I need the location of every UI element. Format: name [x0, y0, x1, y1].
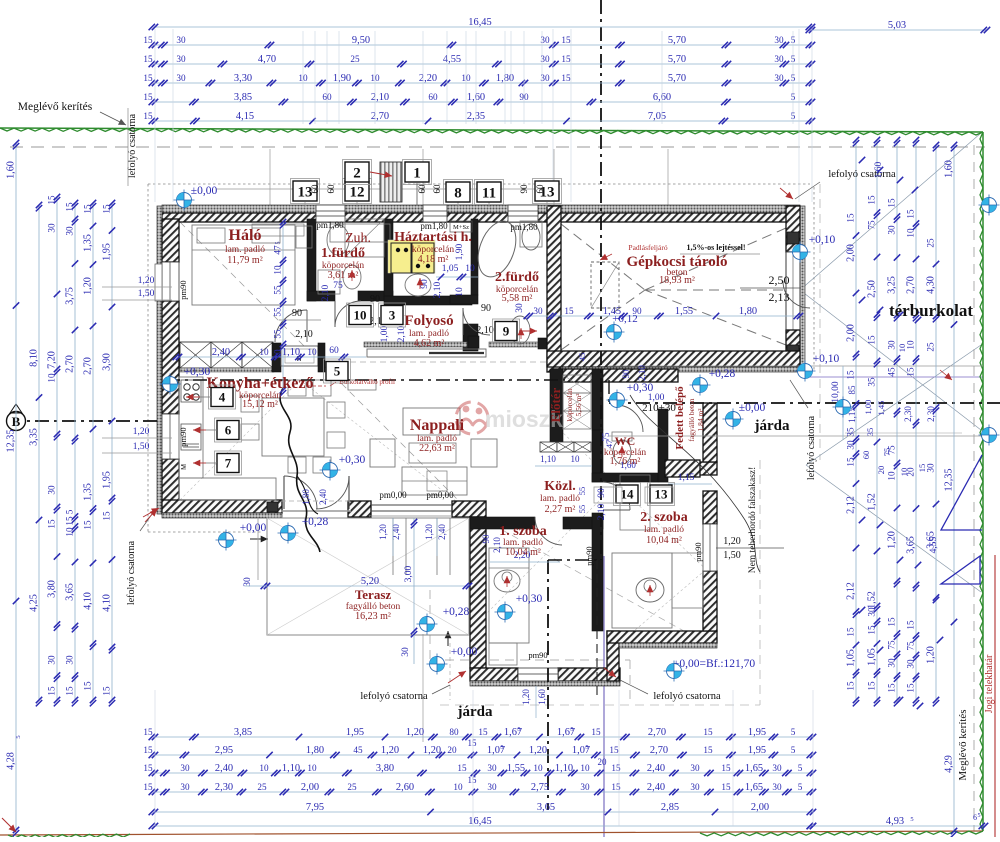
svg-text:30: 30 — [533, 306, 543, 316]
svg-text:15: 15 — [611, 782, 621, 792]
svg-text:9,50: 9,50 — [352, 35, 370, 46]
svg-text:10: 10 — [887, 471, 897, 481]
svg-text:4,30: 4,30 — [926, 276, 937, 294]
svg-text:18,93 m²: 18,93 m² — [659, 275, 695, 286]
svg-text:2,00: 2,00 — [846, 324, 857, 342]
svg-text:15: 15 — [65, 202, 75, 212]
svg-text:2,30: 2,30 — [215, 782, 233, 793]
svg-text:2,30: 2,30 — [903, 406, 913, 422]
svg-text:10: 10 — [906, 340, 916, 350]
svg-text:2: 2 — [353, 165, 361, 181]
svg-text:lefolyó csatorna: lefolyó csatorna — [806, 415, 817, 480]
svg-text:11,79 m²: 11,79 m² — [227, 255, 262, 266]
svg-text:1,95: 1,95 — [102, 243, 113, 261]
svg-text:15: 15 — [143, 54, 153, 64]
svg-text:Fedett belépő: Fedett belépő — [674, 386, 686, 450]
svg-text:15: 15 — [564, 306, 574, 316]
svg-text:5,70: 5,70 — [668, 35, 686, 46]
svg-text:6: 6 — [225, 423, 232, 438]
svg-text:+0,00: +0,00 — [451, 646, 478, 658]
svg-text:4,55: 4,55 — [443, 54, 461, 65]
svg-text:járda: járda — [457, 704, 493, 720]
svg-text:10: 10 — [259, 763, 269, 773]
svg-text:30: 30 — [774, 35, 784, 45]
svg-text:4,15: 4,15 — [236, 111, 254, 122]
svg-text:3,25: 3,25 — [887, 276, 898, 294]
svg-text:köporcelán: köporcelán — [565, 388, 574, 422]
svg-text:2,70: 2,70 — [83, 357, 94, 375]
svg-text:30: 30 — [774, 73, 784, 83]
svg-text:15: 15 — [143, 782, 153, 792]
svg-text:15: 15 — [468, 738, 478, 748]
svg-text:1,20: 1,20 — [424, 524, 434, 540]
svg-text:5: 5 — [798, 763, 803, 773]
svg-text:1,60: 1,60 — [874, 161, 884, 178]
svg-text:1,60: 1,60 — [6, 161, 17, 179]
svg-text:10: 10 — [453, 782, 463, 792]
svg-text:1,90: 1,90 — [333, 73, 351, 84]
svg-text:2,10: 2,10 — [295, 329, 313, 340]
svg-text:2,60: 2,60 — [396, 782, 414, 793]
svg-text:1,00: 1,00 — [380, 325, 390, 342]
svg-text:4,70: 4,70 — [258, 54, 276, 65]
svg-text:pm90: pm90 — [584, 546, 594, 565]
svg-text:11: 11 — [482, 185, 496, 201]
svg-text:5: 5 — [65, 509, 75, 514]
svg-text:Előtér: Előtér — [548, 387, 563, 422]
svg-text:12: 12 — [350, 184, 365, 200]
svg-text:pm1,80: pm1,80 — [510, 222, 538, 232]
svg-text:10: 10 — [354, 308, 367, 323]
svg-text:210+30: 210+30 — [642, 402, 676, 414]
svg-text:85: 85 — [847, 385, 857, 395]
svg-text:4,62 m²: 4,62 m² — [414, 338, 445, 349]
svg-text:lefolyó csatorna: lefolyó csatorna — [127, 113, 138, 178]
svg-text:1,52: 1,52 — [867, 493, 878, 511]
svg-text:15: 15 — [47, 195, 57, 205]
svg-text:Meglévő kerítés: Meglévő kerítés — [957, 709, 969, 780]
svg-text:2,40: 2,40 — [647, 782, 665, 793]
svg-text:15: 15 — [887, 198, 897, 208]
svg-text:45: 45 — [887, 367, 897, 377]
svg-text:15: 15 — [906, 620, 916, 630]
svg-text:15: 15 — [846, 681, 856, 691]
svg-text:7: 7 — [225, 456, 232, 471]
svg-text:15: 15 — [867, 681, 877, 691]
svg-text:1,10: 1,10 — [282, 347, 300, 358]
svg-text:35: 35 — [865, 428, 875, 437]
svg-text:47: 47 — [273, 245, 283, 255]
svg-text:1,35: 1,35 — [83, 483, 94, 501]
svg-text:pm1,80: pm1,80 — [316, 220, 344, 230]
svg-text:2,40: 2,40 — [437, 524, 447, 540]
svg-text:4,10: 4,10 — [83, 592, 94, 610]
svg-text:60: 60 — [861, 451, 871, 460]
svg-text:15: 15 — [721, 782, 731, 792]
svg-text:4,10: 4,10 — [102, 594, 113, 612]
svg-text:55: 55 — [273, 307, 283, 317]
svg-text:3,80: 3,80 — [47, 580, 58, 598]
svg-text:15: 15 — [457, 763, 467, 773]
svg-text:1,20: 1,20 — [381, 745, 399, 756]
svg-text:1,20: 1,20 — [521, 689, 531, 705]
svg-text:pm90: pm90 — [528, 650, 547, 660]
svg-text:2,70: 2,70 — [65, 355, 76, 373]
svg-text:15: 15 — [867, 335, 877, 345]
svg-text:1: 1 — [413, 165, 421, 181]
svg-text:30: 30 — [774, 54, 784, 64]
svg-text:2,50: 2,50 — [867, 280, 878, 298]
svg-text:1,20: 1,20 — [83, 277, 94, 295]
svg-text:15: 15 — [867, 195, 877, 205]
svg-text:+0,28: +0,28 — [709, 368, 736, 380]
svg-text:2,10: 2,10 — [433, 281, 443, 298]
svg-text:60: 60 — [428, 92, 438, 102]
svg-text:2,10: 2,10 — [476, 325, 494, 336]
svg-text:3,65: 3,65 — [537, 802, 555, 813]
svg-text:25: 25 — [350, 54, 360, 64]
svg-text:5,70: 5,70 — [668, 54, 686, 65]
svg-text:pm0,00: pm0,00 — [379, 490, 407, 500]
svg-text:15: 15 — [83, 681, 93, 691]
svg-text:15: 15 — [703, 745, 713, 755]
svg-text:1,20: 1,20 — [133, 427, 150, 437]
svg-text:3,65: 3,65 — [65, 583, 76, 601]
svg-text:15: 15 — [143, 763, 153, 773]
svg-text:+0,30: +0,30 — [627, 382, 654, 394]
svg-text:30: 30 — [47, 485, 57, 495]
svg-text:5,70: 5,70 — [668, 73, 686, 84]
svg-text:2,85: 2,85 — [661, 802, 679, 813]
svg-text:+0,12: +0,12 — [612, 313, 637, 325]
svg-text:10: 10 — [899, 468, 909, 477]
svg-text:Nem teherhordó falszakasz!: Nem teherhordó falszakasz! — [747, 467, 758, 574]
svg-text:15: 15 — [887, 683, 897, 693]
svg-text:2,00: 2,00 — [301, 782, 319, 793]
svg-text:5: 5 — [791, 727, 796, 737]
svg-text:2,40: 2,40 — [318, 489, 328, 505]
svg-text:Nappali: Nappali — [410, 417, 465, 434]
svg-text:Terasz: Terasz — [355, 587, 392, 602]
svg-text:16,23 m²: 16,23 m² — [355, 611, 391, 622]
svg-text:10,04 m²: 10,04 m² — [505, 547, 541, 558]
svg-text:30: 30 — [772, 782, 782, 792]
svg-text:Jogi telekhatár: Jogi telekhatár — [984, 654, 995, 713]
svg-text:2,40: 2,40 — [647, 763, 665, 774]
svg-text:60: 60 — [310, 184, 320, 194]
svg-text:1,20: 1,20 — [529, 745, 547, 756]
svg-text:15,12 m²: 15,12 m² — [242, 399, 278, 410]
svg-text:30: 30 — [65, 226, 75, 236]
svg-text:+0,30: +0,30 — [339, 454, 366, 466]
svg-text:3,90: 3,90 — [102, 353, 113, 371]
svg-text:pm0,00: pm0,00 — [426, 490, 454, 500]
svg-text:6: 6 — [973, 813, 977, 822]
svg-text:3,65: 3,65 — [906, 536, 917, 554]
svg-text:1,20: 1,20 — [423, 745, 441, 756]
svg-text:8,10: 8,10 — [29, 349, 40, 367]
svg-text:2,10: 2,10 — [321, 284, 331, 301]
svg-text:5: 5 — [334, 364, 341, 379]
svg-text:térburkolat: térburkolat — [889, 301, 973, 320]
svg-text:30: 30 — [401, 647, 411, 657]
svg-text:lam. padló: lam. padló — [644, 525, 684, 535]
svg-text:2,10: 2,10 — [597, 503, 607, 520]
svg-text:30: 30 — [47, 655, 57, 665]
svg-text:4: 4 — [219, 390, 226, 405]
svg-text:15: 15 — [143, 745, 153, 755]
svg-text:2.fürdő: 2.fürdő — [495, 270, 539, 285]
svg-text:10: 10 — [307, 347, 317, 357]
svg-text:1,20: 1,20 — [926, 646, 937, 664]
svg-text:10: 10 — [273, 349, 283, 359]
svg-text:2,40: 2,40 — [391, 524, 401, 540]
svg-text:5: 5 — [910, 816, 913, 823]
svg-text:3,00: 3,00 — [404, 565, 414, 582]
svg-text:15: 15 — [906, 367, 916, 377]
svg-text:60: 60 — [417, 184, 427, 194]
svg-text:2,70: 2,70 — [648, 727, 666, 738]
svg-text:Folyosó: Folyosó — [404, 313, 453, 329]
svg-text:55: 55 — [273, 329, 283, 339]
svg-text:+0,28: +0,28 — [443, 606, 470, 618]
svg-text:90: 90 — [292, 308, 302, 319]
svg-text:1.fürdő: 1.fürdő — [321, 246, 365, 261]
svg-text:10,04 m²: 10,04 m² — [646, 535, 682, 546]
svg-text:3,85: 3,85 — [234, 92, 252, 103]
svg-text:5: 5 — [276, 242, 282, 245]
svg-text:10: 10 — [533, 763, 543, 773]
svg-text:80: 80 — [449, 727, 459, 737]
svg-text:+0,10: +0,10 — [809, 234, 836, 246]
svg-text:15: 15 — [703, 727, 713, 737]
svg-text:22,63 m²: 22,63 m² — [419, 443, 455, 454]
svg-text:2. szoba: 2. szoba — [640, 510, 687, 525]
svg-text:15: 15 — [47, 686, 57, 696]
svg-text:Háló: Háló — [229, 227, 262, 244]
svg-text:±0,00: ±0,00 — [191, 185, 218, 197]
svg-text:4,18 m²: 4,18 m² — [418, 254, 449, 265]
svg-text:2,40: 2,40 — [215, 763, 233, 774]
svg-text:35: 35 — [867, 377, 877, 387]
svg-text:15: 15 — [143, 73, 153, 83]
svg-text:15: 15 — [846, 370, 856, 380]
svg-text:15: 15 — [83, 204, 93, 214]
svg-text:5,56 m²: 5,56 m² — [574, 393, 583, 417]
svg-text:30: 30 — [887, 340, 897, 350]
svg-text:2,75: 2,75 — [531, 782, 549, 793]
svg-text:14: 14 — [621, 487, 635, 502]
svg-text:lam. padló: lam. padló — [540, 494, 580, 504]
svg-text:10: 10 — [273, 265, 283, 275]
svg-text:M: M — [181, 464, 188, 470]
svg-text:+0,00: +0,00 — [240, 522, 267, 534]
svg-text:2,00: 2,00 — [846, 244, 857, 262]
svg-text:10: 10 — [307, 763, 317, 773]
svg-text:pm90: pm90 — [178, 280, 188, 299]
svg-text:2,10: 2,10 — [637, 365, 647, 381]
svg-text:30: 30 — [580, 782, 590, 792]
svg-text:3,80: 3,80 — [376, 763, 394, 774]
svg-text:25: 25 — [257, 782, 267, 792]
svg-text:1,20: 1,20 — [138, 276, 155, 286]
svg-text:2,12: 2,12 — [846, 496, 857, 514]
svg-text:25: 25 — [926, 342, 936, 352]
svg-text:90: 90 — [481, 303, 491, 314]
svg-text:1,60: 1,60 — [537, 689, 547, 705]
svg-text:25: 25 — [347, 782, 357, 792]
svg-text:5,03: 5,03 — [888, 20, 906, 31]
svg-text:pm90: pm90 — [178, 427, 188, 446]
svg-text:15: 15 — [143, 92, 153, 102]
svg-text:1,76 m²: 1,76 m² — [610, 456, 641, 467]
svg-text:60: 60 — [326, 184, 336, 194]
svg-text:1,80: 1,80 — [306, 745, 324, 756]
svg-text:1,95: 1,95 — [346, 727, 364, 738]
svg-text:4,55: 4,55 — [929, 536, 939, 553]
svg-text:5: 5 — [798, 782, 803, 792]
svg-text:1,55: 1,55 — [507, 763, 525, 774]
svg-text:1,10: 1,10 — [555, 763, 573, 774]
svg-text:3,35: 3,35 — [29, 428, 40, 446]
svg-text:1,55: 1,55 — [675, 306, 693, 317]
svg-text:2,10: 2,10 — [492, 537, 502, 553]
svg-text:15: 15 — [591, 727, 601, 737]
svg-text:2,95: 2,95 — [215, 745, 233, 756]
svg-text:2,00: 2,00 — [751, 802, 769, 813]
svg-text:20: 20 — [447, 745, 457, 755]
svg-text:lefolyó csatorna: lefolyó csatorna — [653, 691, 721, 702]
svg-text:30: 30 — [772, 763, 782, 773]
svg-text:3,75: 3,75 — [65, 287, 76, 305]
svg-text:1,20: 1,20 — [723, 536, 741, 547]
svg-text:1,35: 1,35 — [83, 234, 94, 252]
svg-text:5: 5 — [500, 744, 503, 751]
svg-text:16,45: 16,45 — [468, 17, 491, 28]
svg-text:15: 15 — [143, 727, 153, 737]
svg-text:13: 13 — [655, 487, 669, 502]
svg-text:2,70: 2,70 — [650, 745, 668, 756]
svg-text:4,25: 4,25 — [29, 594, 40, 612]
svg-text:30: 30 — [180, 763, 190, 773]
svg-text:30: 30 — [487, 763, 497, 773]
svg-text:30: 30 — [180, 782, 190, 792]
svg-text:1,20: 1,20 — [887, 531, 898, 549]
svg-text:1,00: 1,00 — [863, 400, 873, 415]
svg-text:12,35: 12,35 — [944, 469, 955, 492]
svg-text:1,65: 1,65 — [745, 763, 763, 774]
svg-text:75: 75 — [867, 220, 877, 230]
svg-text:2,10: 2,10 — [371, 92, 389, 103]
svg-text:30: 30 — [690, 782, 700, 792]
svg-text:+0,00=Bf.:121,70: +0,00=Bf.:121,70 — [673, 658, 756, 670]
svg-text:2,30: 2,30 — [926, 406, 936, 422]
svg-text:1,95: 1,95 — [748, 727, 766, 738]
svg-text:60: 60 — [329, 346, 339, 356]
svg-text:2,40: 2,40 — [212, 347, 230, 358]
svg-text:1. szoba: 1. szoba — [499, 524, 546, 539]
svg-text:60: 60 — [432, 184, 442, 194]
svg-text:1,95: 1,95 — [102, 471, 113, 489]
svg-text:2,20: 2,20 — [419, 73, 437, 84]
svg-text:30: 30 — [176, 54, 186, 64]
svg-text:3,85: 3,85 — [234, 727, 252, 738]
svg-text:30: 30 — [887, 225, 897, 235]
svg-text:2,50: 2,50 — [769, 273, 790, 287]
svg-text:15: 15 — [65, 686, 75, 696]
svg-text:2,70: 2,70 — [906, 276, 917, 294]
svg-text:járda: járda — [754, 418, 790, 434]
svg-text:15: 15 — [846, 627, 856, 637]
svg-text:30: 30 — [690, 763, 700, 773]
svg-text:Meglévő kerítés: Meglévő kerítés — [18, 101, 93, 113]
svg-text:30: 30 — [926, 463, 936, 473]
svg-text:15: 15 — [906, 209, 916, 219]
svg-text:1,05: 1,05 — [867, 648, 878, 666]
svg-text:5: 5 — [15, 735, 22, 738]
svg-text:30: 30 — [176, 73, 186, 83]
svg-text:30: 30 — [176, 35, 186, 45]
svg-text:15: 15 — [102, 511, 112, 521]
svg-text:15: 15 — [468, 775, 478, 785]
svg-text:1,60: 1,60 — [944, 160, 955, 178]
svg-text:15: 15 — [561, 73, 571, 83]
svg-text:1,45: 1,45 — [876, 401, 886, 416]
svg-text:30: 30 — [515, 303, 525, 313]
svg-text:8: 8 — [454, 185, 462, 201]
svg-text:2,70: 2,70 — [371, 111, 389, 122]
svg-text:25: 25 — [926, 238, 936, 248]
svg-text:1,00: 1,00 — [648, 393, 665, 403]
svg-text:30: 30 — [47, 223, 57, 233]
svg-text:90: 90 — [481, 534, 491, 544]
svg-text:30: 30 — [487, 782, 497, 792]
svg-text:5: 5 — [570, 726, 573, 733]
svg-text:1,84 m²: 1,84 m² — [696, 408, 705, 432]
svg-text:4,28: 4,28 — [6, 752, 17, 770]
svg-text:90: 90 — [597, 488, 607, 498]
svg-text:5,20: 5,20 — [361, 576, 379, 587]
svg-text:7,05: 7,05 — [648, 111, 666, 122]
svg-text:Padlásfeljáró: Padlásfeljáró — [628, 243, 667, 252]
svg-text:10: 10 — [465, 264, 475, 274]
svg-text:45: 45 — [577, 353, 587, 362]
svg-text:75: 75 — [906, 641, 916, 651]
svg-text:5: 5 — [585, 744, 588, 751]
svg-text:15: 15 — [846, 213, 856, 223]
svg-text:75: 75 — [882, 448, 892, 457]
svg-text:60: 60 — [535, 184, 545, 194]
svg-text:15: 15 — [143, 111, 153, 121]
svg-text:1,65: 1,65 — [745, 782, 763, 793]
svg-text:1,10: 1,10 — [540, 454, 556, 464]
svg-text:55: 55 — [577, 505, 587, 514]
svg-text:+0,28: +0,28 — [302, 516, 329, 528]
svg-text:1,05: 1,05 — [442, 264, 459, 274]
svg-text:1,50: 1,50 — [133, 442, 150, 452]
svg-text:2,13: 2,13 — [769, 290, 790, 304]
svg-text:1,80: 1,80 — [739, 306, 757, 317]
svg-text:10: 10 — [580, 763, 590, 773]
svg-text:15: 15 — [917, 464, 927, 473]
svg-text:5: 5 — [517, 726, 520, 733]
svg-text:fagyálló beton: fagyálló beton — [687, 398, 696, 441]
svg-text:5: 5 — [978, 813, 981, 819]
svg-text:1,90: 1,90 — [455, 243, 465, 260]
svg-text:15: 15 — [906, 683, 916, 693]
svg-text:lefolyó csatorna: lefolyó csatorna — [126, 540, 137, 605]
svg-text:lam. padló: lam. padló — [225, 245, 265, 255]
